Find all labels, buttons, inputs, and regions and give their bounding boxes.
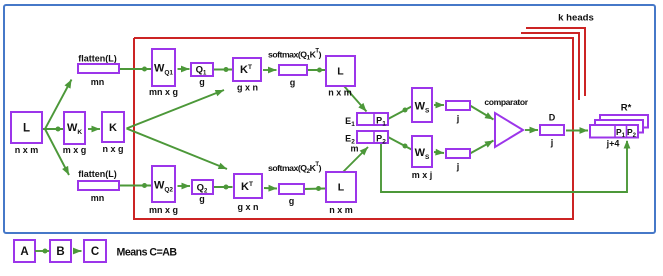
svg-text:mn x g: mn x g: [149, 87, 178, 97]
svg-text:n x m: n x m: [15, 145, 39, 155]
svg-text:j+4: j+4: [606, 139, 620, 149]
svg-text:L: L: [338, 182, 345, 194]
svg-text:g: g: [199, 194, 205, 204]
svg-text:g x n: g x n: [237, 83, 258, 93]
svg-text:L: L: [23, 123, 30, 135]
svg-text:R*: R*: [621, 103, 632, 114]
svg-text:n x g: n x g: [102, 144, 123, 154]
svg-text:comparator: comparator: [484, 97, 528, 107]
svg-text:mn: mn: [91, 193, 105, 203]
svg-text:j: j: [550, 138, 554, 148]
svg-text:j: j: [456, 162, 460, 172]
svg-text:m: m: [350, 144, 358, 154]
svg-text:j: j: [456, 114, 460, 124]
svg-text:mn: mn: [91, 77, 105, 87]
svg-text:mn x g: mn x g: [149, 205, 178, 215]
svg-text:n x m: n x m: [329, 205, 353, 215]
svg-text:k heads: k heads: [558, 13, 594, 24]
svg-text:g x n: g x n: [237, 202, 258, 212]
svg-text:B: B: [56, 246, 64, 258]
svg-text:K: K: [109, 122, 117, 134]
svg-text:flatten(L): flatten(L): [78, 54, 117, 64]
svg-text:n x m: n x m: [328, 88, 352, 98]
svg-text:g: g: [290, 78, 296, 88]
svg-text:m x g: m x g: [63, 145, 87, 155]
svg-text:C: C: [91, 246, 99, 258]
svg-text:D: D: [549, 113, 556, 123]
svg-text:Means C=AB: Means C=AB: [117, 247, 178, 259]
svg-text:g: g: [199, 77, 205, 87]
svg-text:g: g: [289, 196, 295, 206]
svg-text:flatten(L): flatten(L): [78, 169, 117, 179]
svg-text:softmax(Q1KT): softmax(Q1KT): [268, 48, 322, 62]
svg-text:m x j: m x j: [412, 170, 433, 180]
svg-text:L: L: [337, 66, 344, 78]
svg-text:softmax(Q2KT): softmax(Q2KT): [268, 162, 322, 176]
svg-text:A: A: [20, 246, 28, 258]
